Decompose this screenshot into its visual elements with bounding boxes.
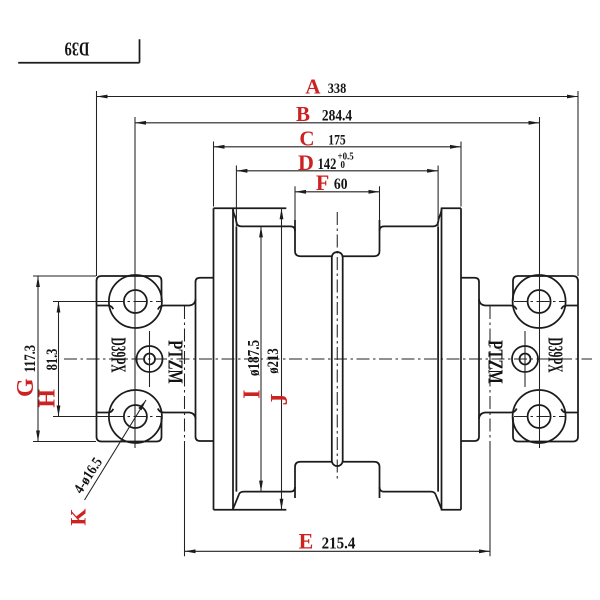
svg-text:284.4: 284.4 [322, 108, 353, 125]
svg-text:A: A [305, 75, 321, 99]
tread root surface left [236, 222, 295, 495]
svg-text:215.4: 215.4 [322, 535, 356, 553]
bolt hole inner circles right [528, 290, 551, 313]
flange boss pad edges right [511, 306, 579, 413]
dimension E extensions dash-dot through flange [185, 306, 491, 442]
svg-text:D: D [298, 150, 314, 175]
dimension F extensions [295, 186, 380, 220]
svg-text:D39PX: D39PX [544, 337, 568, 373]
tread band edge circle left [232, 208, 234, 509]
groove wall and valley right [343, 220, 380, 498]
dimension G extensions [33, 276, 96, 442]
bolt hole centerline horizontals right [514, 302, 565, 417]
flange outline left [97, 276, 162, 442]
svg-text:338: 338 [328, 80, 347, 96]
flange boss pad edges left [97, 306, 165, 413]
svg-text:C: C [299, 127, 314, 151]
svg-text:PTZM: PTZM [164, 340, 187, 384]
dimension D line [236, 170, 438, 172]
tread root circle left [235, 226, 237, 491]
svg-text:B: B [296, 102, 310, 126]
tread band edge circle right [441, 208, 443, 509]
dimension I line (diameter 187.5) [260, 226, 262, 491]
dimension D extensions [236, 166, 438, 227]
tread top and bottom surface left [214, 208, 287, 509]
svg-text:F: F [316, 170, 329, 195]
bolt hole centerline vertical right (B extension) [539, 117, 541, 448]
collar top/bottom right [479, 299, 511, 419]
small center hole left [137, 346, 163, 372]
bolt hole counterbore circles left [109, 275, 162, 328]
tread top and bottom surface right (short) [441, 208, 461, 509]
dimension H line [58, 302, 60, 417]
svg-text:D39: D39 [64, 38, 89, 61]
svg-text:ø213: ø213 [265, 348, 282, 373]
tread root surface right [380, 222, 439, 495]
svg-text:PTZM: PTZM [484, 340, 507, 384]
svg-text:K: K [66, 508, 91, 525]
bolt hole centerline horizontals left [53, 302, 111, 417]
main horizontal axis centerline [64, 358, 592, 360]
bolt hole centerline vertical left (B extension) [134, 117, 136, 448]
small center hole right [512, 346, 538, 372]
svg-text:60: 60 [334, 176, 348, 193]
svg-text:81.3: 81.3 [44, 349, 62, 371]
svg-text:I: I [240, 390, 266, 399]
dimension B line [135, 122, 540, 124]
groove wall and valley left [295, 220, 332, 498]
svg-text:E: E [299, 529, 314, 554]
dimension C line [214, 146, 462, 148]
dimension E line [185, 550, 491, 552]
svg-text:H: H [35, 389, 61, 408]
tread root circle right [437, 226, 439, 491]
dimension A line [97, 96, 579, 98]
center thrust ridge ring [332, 252, 343, 466]
title block line [18, 39, 139, 62]
end cap face and top right [461, 278, 479, 441]
svg-text:D39PX: D39PX [107, 337, 131, 373]
tread outer face left [213, 208, 215, 509]
svg-text:J: J [267, 394, 293, 406]
tread chamfer s-curves left [233, 210, 239, 510]
dimension A extensions [97, 91, 579, 276]
svg-text:175: 175 [328, 131, 346, 148]
tread outer face right [460, 208, 462, 509]
dimension F line [295, 191, 380, 193]
bolt hole inner circles left [124, 290, 147, 313]
dimension J line (diameter 213) [281, 208, 283, 509]
dimension K leader line [85, 400, 147, 500]
end cap face and top left [196, 278, 214, 441]
bolt hole counterbore circles right [513, 275, 566, 328]
flange outline right [513, 276, 578, 442]
collar top/bottom left [164, 299, 196, 419]
svg-text:117.3: 117.3 [22, 345, 40, 373]
dimension C extensions [214, 142, 462, 207]
svg-text:0: 0 [341, 159, 346, 171]
vertical axis centerline of roller [336, 212, 338, 479]
dimension G line [37, 276, 39, 442]
small hole centerline verticals [150, 331, 526, 387]
svg-text:ø187.5: ø187.5 [246, 340, 264, 376]
tread chamfer s-curves right [436, 210, 442, 510]
